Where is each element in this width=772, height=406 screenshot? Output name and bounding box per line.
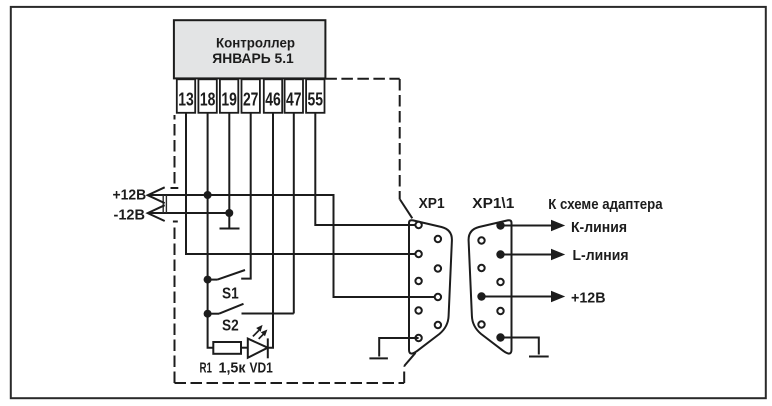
resistor R1 [213,342,241,354]
XP1 pin left 3 [415,278,421,284]
XP1 shell ground wire [379,338,418,357]
pin 13 [177,79,195,113]
wire XP1\1 ground [501,338,539,355]
arrow +12V right [551,291,565,303]
junction dot S1 [204,276,212,284]
svg-text:46: 46 [265,89,281,109]
arrow -12V left [148,205,165,221]
XP1 pin right 2 [435,265,441,271]
XP1\1 pin left 4 [478,321,484,327]
svg-text:L-линия: L-линия [573,247,629,264]
XP1\1 pin left 2 [478,265,484,271]
pin 46 [264,79,282,113]
LED VD1 [248,338,268,358]
XP1 pin right 4 [435,322,441,328]
wire +12V out [482,296,553,298]
wire pin47 down to S2 contact [293,113,295,314]
svg-text:13: 13 [178,89,194,109]
wire pin55 to XP1 pin1 [315,113,418,225]
svg-text:К схеме адаптера: К схеме адаптера [548,196,663,213]
pin 47 [285,79,303,113]
XP1\1 pin 3 +12V [477,292,485,300]
arrow K-line [551,220,565,232]
svg-text:S2: S2 [222,318,239,335]
junction dot S2 [204,310,212,318]
wire pin18 down to R1 [208,113,214,348]
XP1 pin 2 [415,251,421,257]
svg-text:18: 18 [200,89,216,109]
svg-text:К-линия: К-линия [571,219,627,236]
arrow +12V left [148,187,165,203]
wire pin19 down to -12V node [228,113,230,213]
wire pin27 down to S1 contact [241,113,251,279]
svg-text:1,5к: 1,5к [219,360,246,377]
controller U1 box ЯНВАРЬ 5.1 [174,20,326,78]
boundary crossing tick lower [173,221,178,223]
pin 55 [306,79,324,113]
svg-text:ЯНВАРЬ 5.1: ЯНВАРЬ 5.1 [212,50,294,66]
dashed harness boundary left segment lower [174,228,176,384]
cable entry diagonal top to XP1 [400,200,412,219]
XP1\1 pin 2 L [496,250,504,258]
LED VD1 emission arrows [253,325,268,339]
junction dot pin18 +12V [204,191,212,199]
wire R1 to VD1 [241,347,248,349]
switch S1 [208,270,245,280]
pin 27 [242,79,260,113]
svg-text:19: 19 [221,89,237,109]
svg-text:R1: R1 [200,360,213,377]
wire pin13 to XP1 pin2 [186,113,419,254]
pin 18 [198,79,216,113]
dashed harness boundary bottom segment [175,382,405,384]
XP1 pin right 3 +12V [435,294,441,300]
dashed harness boundary right lower segment [403,367,405,384]
svg-text:47: 47 [286,89,302,109]
XP1\1 pin 5 ground [496,333,504,341]
XP1\1 pin right 3 [497,279,503,285]
connector XP1 shell [409,220,452,353]
svg-text:+12В: +12В [571,289,606,306]
twisted pair marker [163,195,166,213]
dashed harness boundary left segment upper [174,115,176,184]
arrow L-line [551,249,565,261]
svg-text:XP1\1: XP1\1 [472,195,514,212]
ground XP1\1 [529,356,549,358]
XP1\1 pin right 4 [497,308,503,314]
wire pin46 down to VD1 cathode [268,113,273,348]
dashed harness boundary top segment [325,78,399,80]
svg-text:-12В: -12В [114,206,146,223]
svg-text:S1: S1 [222,286,239,303]
wire +12V rail to XP1 pin3 [148,195,438,297]
switch S2 [208,304,294,314]
svg-text:Контроллер: Контроллер [216,35,295,51]
connector XP1\1 shell [469,220,512,353]
ground below -12V node [220,213,240,229]
svg-text:+12В: +12В [113,186,147,203]
XP1\1 pin left 1 [478,237,484,243]
boundary crossing tick upper [171,187,179,189]
junction dot pin19 -12V [225,209,233,217]
XP1 pin right 1 [435,236,441,242]
XP1 pin 1 [415,222,421,228]
wire L-line out [501,254,553,256]
XP1 pin 5 ground [415,335,421,341]
XP1\1 pin 1 K [496,221,504,229]
XP1 pin left 4 [415,307,421,313]
wire -12V rail [148,212,229,214]
wire K-line out [501,225,553,227]
pin 19 [220,79,238,113]
cable entry diagonal bottom to XP1 [404,353,415,366]
svg-text:55: 55 [308,89,324,109]
svg-text:XP1: XP1 [419,195,445,212]
dashed harness boundary right upper segment [399,79,401,200]
svg-text:VD1: VD1 [250,360,273,377]
svg-text:27: 27 [243,89,259,109]
ground XP1 [369,357,388,359]
